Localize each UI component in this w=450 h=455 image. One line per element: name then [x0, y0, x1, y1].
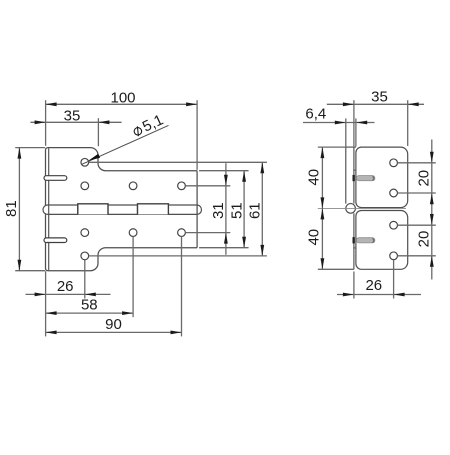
dimension 31 arrow bottom	[224, 233, 228, 244]
dimension 90 arrow left	[46, 331, 57, 335]
svg-text:20: 20	[416, 170, 433, 187]
side view: knuckle tangent line	[345, 147, 347, 204]
dimension 51 line	[243, 171, 245, 248]
front view: right edge	[196, 171, 198, 248]
side hole 1	[390, 159, 398, 167]
dimension 100 arrow left	[46, 102, 57, 106]
side view: sheet back face upper	[353, 147, 355, 203]
dimension 35 side arrow right	[408, 102, 419, 106]
dimension 58 arrow right	[122, 311, 133, 315]
knuckle joint line 4	[167, 205, 169, 214]
svg-text:58: 58	[81, 297, 98, 314]
svg-text:6,4: 6,4	[305, 106, 326, 123]
side view: embossed tab lower end bar	[353, 237, 355, 243]
dimension 40 ext top	[318, 146, 346, 148]
dimension 100 ext right	[196, 100, 198, 170]
dimension 26 arrow right	[85, 293, 96, 297]
svg-text:26: 26	[365, 277, 382, 294]
svg-text:20: 20	[416, 231, 433, 248]
svg-text:40: 40	[306, 229, 323, 246]
dimension 100 line	[46, 103, 198, 105]
hole lower row col2	[129, 229, 137, 237]
dimension 100 ext left	[45, 100, 47, 146]
dimension 81 arrow top	[18, 148, 22, 159]
svg-text:40: 40	[306, 169, 323, 186]
side view: sheet back face lower	[353, 213, 355, 269]
dimension 100 arrow right	[186, 102, 197, 106]
embossed slot lower	[44, 238, 67, 243]
dimension 51 ext top	[199, 170, 249, 172]
dimension 40 arrow mid-down	[321, 197, 325, 208]
hole bottom-left (d5.1)	[81, 252, 89, 260]
hole upper row col3	[178, 182, 186, 190]
dimension 61 arrow top	[260, 162, 264, 173]
dimension 40 arrow mid-up	[321, 208, 325, 219]
dimension 40 arrow top	[321, 147, 325, 158]
spine tick upper	[353, 169, 356, 171]
dimension 26 side ext right	[393, 260, 395, 299]
svg-text:61: 61	[247, 202, 264, 219]
dimension 31 ext bottom	[185, 232, 230, 234]
dimension 35 arrow left	[35, 120, 46, 124]
dimension 31 line	[225, 163, 227, 255]
dimension 35 side ext right	[407, 100, 409, 146]
dimension 20 arrow top	[430, 152, 434, 163]
spine tick lower	[353, 247, 356, 249]
dimension 26 side arrow right	[394, 293, 405, 297]
dimension 35 side ext left	[353, 100, 355, 146]
raised knuckle segment B	[138, 204, 169, 215]
dimension 90 arrow right	[171, 331, 182, 335]
dimension 81 ext bottom	[15, 270, 45, 272]
dimension 26 arrow left	[35, 293, 46, 297]
dimension 51 ext bottom	[199, 247, 249, 249]
dimension 81 arrow bottom	[18, 260, 22, 271]
side view: upper plate	[356, 147, 408, 208]
dimension 35 arrow right	[98, 120, 109, 124]
dimension 31 ext top	[185, 185, 230, 187]
side hole 4	[390, 252, 398, 260]
raised knuckle segment A	[78, 204, 108, 215]
dimension 20 ext 3	[398, 224, 436, 226]
dimension 51 arrow top	[242, 171, 246, 182]
dimension 40 upper line	[321, 147, 323, 269]
knuckle joint line 3	[137, 205, 139, 214]
dimension 20 arrow bottom	[430, 256, 434, 267]
dimension 35 line (front)	[30, 121, 121, 123]
dimension 35 ext right	[97, 118, 99, 146]
diameter symbol	[133, 125, 144, 137]
dimension 58 line	[46, 312, 134, 314]
dimension 6,4 arrow right	[356, 121, 367, 125]
dimension 31 arrow top	[224, 175, 228, 186]
side view: embossed tab lower	[356, 238, 375, 243]
dimension 20 ext 1	[398, 162, 436, 164]
front view: inner fold line of left flange	[48, 148, 50, 270]
dimension 61 ext bottom	[89, 255, 267, 257]
svg-text:100: 100	[110, 90, 135, 107]
dimension 26 line (front)	[26, 293, 111, 295]
side hole 2	[390, 189, 398, 197]
ext line left edge bottom	[45, 271, 47, 336]
side view: barrel axis line / 40 extension	[318, 207, 406, 209]
side view: lower plate	[356, 211, 408, 270]
front view: upper leaf outline	[46, 148, 198, 206]
svg-text:51: 51	[228, 202, 245, 219]
front view: lower leaf outline	[46, 214, 198, 270]
side view: embossed tab upper	[356, 176, 375, 181]
dimension 20 arrow below mid1	[430, 193, 434, 204]
knuckle joint line 2	[107, 205, 109, 214]
svg-text:35: 35	[371, 88, 388, 105]
dimension 26 side ext left	[353, 272, 355, 299]
dimension 61 line	[261, 162, 263, 256]
dimension 61 ext top	[89, 161, 267, 163]
dimension 35 line (side)	[327, 103, 424, 105]
svg-text:81: 81	[3, 200, 20, 217]
hole lower row col1	[81, 229, 89, 237]
dimension 6,4 ext left	[345, 118, 347, 146]
dimension 6,4 ext right	[355, 118, 357, 146]
side hole 3	[390, 221, 398, 229]
side view: barrel circle	[346, 204, 356, 214]
ext line hole col2 bottom	[132, 237, 134, 318]
dimension 26 side arrow left	[343, 293, 354, 297]
dimension 40 ext bottom	[318, 268, 354, 270]
dimension 20 ext 4	[398, 255, 436, 257]
dimension 6,4 arrow left	[335, 121, 346, 125]
hole upper row col1	[81, 182, 89, 190]
knuckle joint line 1	[77, 205, 79, 214]
dimension 61 arrow bottom	[260, 245, 264, 256]
leader arrow	[88, 154, 100, 161]
side view: embossed tab upper end bar	[353, 175, 355, 181]
dimension 6,4 line	[303, 122, 375, 124]
dimension 58 arrow left	[46, 311, 57, 315]
dimension 51 arrow bottom	[242, 237, 246, 248]
dimension 40 arrow bottom	[321, 258, 325, 269]
ext line hole col1 bottom	[84, 260, 86, 299]
front view: hinge barrel band	[43, 205, 201, 214]
dimension 90 line	[46, 331, 182, 333]
svg-text:31: 31	[210, 202, 227, 219]
embossed slot upper	[44, 176, 67, 181]
dimension 81 ext top	[15, 147, 45, 149]
leader line d5.1	[81, 125, 168, 164]
hole top-left (d5.1)	[81, 158, 89, 166]
svg-text:35: 35	[64, 107, 81, 124]
dimension 20 line	[431, 140, 433, 280]
side view: top cap edge	[346, 146, 356, 148]
dimension 20 arrow above mid2	[430, 214, 434, 225]
dimension 35 side arrow left	[343, 102, 354, 106]
hole lower row col3	[178, 229, 186, 237]
hole upper row col2	[129, 182, 137, 190]
dimension 20 ext 2	[398, 192, 436, 194]
dimension 81 line	[18, 148, 20, 271]
svg-text:26: 26	[57, 278, 74, 295]
ext line hole col3 bottom	[181, 237, 183, 337]
dimension 26 line (side)	[337, 294, 421, 296]
svg-text:90: 90	[105, 316, 122, 333]
